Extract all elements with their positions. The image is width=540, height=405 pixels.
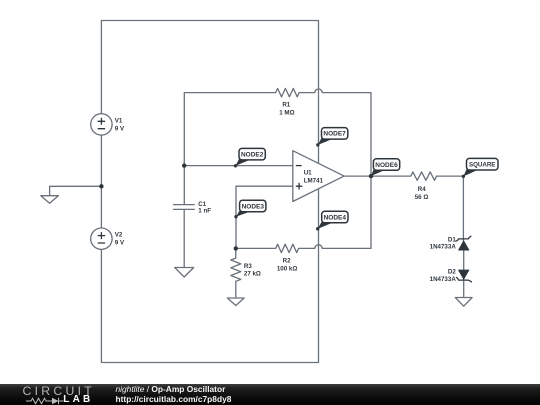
svg-text:R3: R3	[244, 263, 252, 270]
svg-text:9 V: 9 V	[115, 240, 125, 247]
svg-text:R4: R4	[418, 186, 426, 193]
svg-text:NODE3: NODE3	[242, 203, 265, 210]
svg-text:100 kΩ: 100 kΩ	[277, 265, 297, 272]
svg-text:D2: D2	[448, 268, 456, 275]
svg-text:56 Ω: 56 Ω	[415, 194, 429, 201]
svg-text:NODE4: NODE4	[324, 214, 347, 221]
svg-text:U1: U1	[304, 170, 312, 177]
svg-text:R2: R2	[283, 258, 291, 265]
svg-text:NODE2: NODE2	[241, 152, 264, 159]
svg-text:9 V: 9 V	[115, 125, 125, 132]
svg-text:27 kΩ: 27 kΩ	[244, 271, 261, 278]
svg-text:V2: V2	[115, 232, 123, 239]
svg-text:V1: V1	[115, 117, 123, 124]
svg-text:D1: D1	[448, 236, 456, 243]
svg-text:R1: R1	[282, 102, 290, 109]
svg-text:NODE6: NODE6	[375, 162, 398, 169]
svg-text:LM741: LM741	[304, 177, 324, 184]
svg-text:1 nF: 1 nF	[198, 208, 211, 215]
svg-text:1N4733A: 1N4733A	[430, 244, 457, 251]
svg-text:1 MΩ: 1 MΩ	[279, 110, 294, 117]
svg-text:1N4733A: 1N4733A	[430, 276, 457, 283]
svg-text:SQUARE: SQUARE	[469, 162, 495, 169]
svg-text:NODE7: NODE7	[323, 131, 346, 138]
